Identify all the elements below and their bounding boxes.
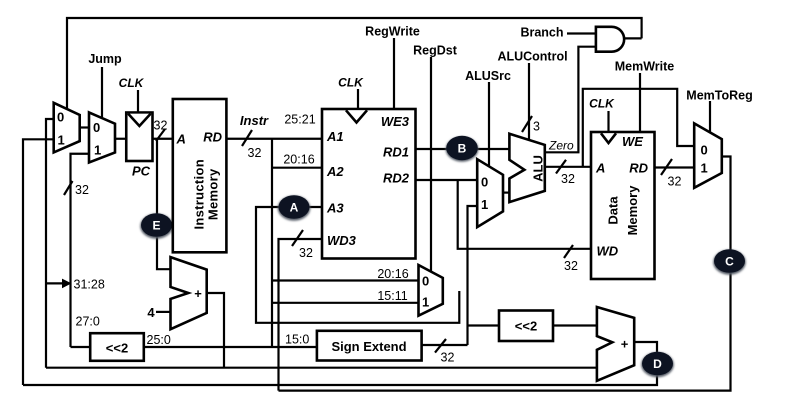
svg-text:E: E xyxy=(152,219,160,233)
wire RD2 to srcB mux input 0 xyxy=(416,179,478,181)
wire RD1 to ALU xyxy=(416,148,510,150)
svg-text:RegDst: RegDst xyxy=(413,44,458,58)
svg-text:WD3: WD3 xyxy=(327,233,357,248)
svg-text:+: + xyxy=(194,286,202,301)
svg-text:15:11: 15:11 xyxy=(377,289,407,303)
svg-text:32: 32 xyxy=(441,351,455,365)
wire Jump select xyxy=(101,67,103,119)
svg-text:Branch: Branch xyxy=(520,26,563,40)
arrowhead 31:28 xyxy=(62,279,72,289)
register file xyxy=(322,109,416,259)
svg-text:25:0: 25:0 xyxy=(147,333,171,347)
node E xyxy=(140,213,173,239)
register PC xyxy=(126,113,152,162)
node B xyxy=(446,136,479,162)
wire ALUSrc xyxy=(488,82,490,166)
svg-text:32: 32 xyxy=(248,146,262,160)
svg-text:MemWrite: MemWrite xyxy=(615,60,675,74)
label ALU (rotated) xyxy=(531,155,546,182)
mux branch (PCSrc) xyxy=(54,103,80,153)
svg-text:ALUSrc: ALUSrc xyxy=(465,69,511,83)
svg-text:4: 4 xyxy=(147,305,155,320)
svg-text:A3: A3 xyxy=(326,201,344,216)
wire 20:16 to A2 xyxy=(272,167,322,169)
svg-text:RegWrite: RegWrite xyxy=(365,25,420,39)
svg-text:1: 1 xyxy=(94,143,101,158)
svg-text:RD1: RD1 xyxy=(383,145,409,160)
svg-text:B: B xyxy=(458,142,467,156)
wire AND output stub xyxy=(624,37,642,39)
svg-text:1: 1 xyxy=(422,295,429,310)
svg-text:25:21: 25:21 xyxy=(284,113,315,127)
wire SignImm up to srcB mux input 1 xyxy=(468,206,478,345)
wire PC to instruction memory A xyxy=(153,138,174,140)
node C xyxy=(713,249,746,275)
svg-text:ALU: ALU xyxy=(531,155,546,182)
svg-text:32: 32 xyxy=(564,259,578,273)
clock triangle data memory xyxy=(601,133,616,143)
svg-text:A2: A2 xyxy=(326,164,344,179)
svg-text:D: D xyxy=(653,357,662,371)
svg-text:0: 0 xyxy=(701,143,708,158)
svg-text:<<2: <<2 xyxy=(515,319,537,334)
svg-text:+: + xyxy=(621,337,629,352)
svg-text:C: C xyxy=(725,255,734,269)
svg-text:ALUControl: ALUControl xyxy=(497,50,567,64)
slash WD3 32 xyxy=(292,230,303,246)
mux RegDst xyxy=(419,265,443,316)
wire result from MemToReg mux down and along bottom xyxy=(279,157,731,391)
box shift left 2 (jump) xyxy=(90,333,144,361)
svg-text:RD: RD xyxy=(629,161,648,176)
wire PC tap down to PC+4 adder xyxy=(157,139,171,269)
wire instr bits vertical xyxy=(271,139,273,347)
svg-text:1: 1 xyxy=(701,161,708,176)
wire RegDst xyxy=(430,57,432,272)
wire jump address to jump mux input 1 xyxy=(71,154,90,347)
svg-text:Memory: Memory xyxy=(625,185,640,236)
svg-text:Sign Extend: Sign Extend xyxy=(331,339,406,354)
label Data Memory (rotated) xyxy=(606,185,641,236)
wire Branch into AND gate xyxy=(567,32,596,34)
svg-text:31:28: 31:28 xyxy=(74,278,105,292)
svg-text:A: A xyxy=(595,161,605,176)
svg-text:A1: A1 xyxy=(326,129,344,144)
clock triangle PC xyxy=(128,114,150,126)
svg-text:32: 32 xyxy=(299,246,313,260)
svg-text:32: 32 xyxy=(75,183,89,197)
wire RegWrite xyxy=(393,38,395,109)
slash SignImm 32 xyxy=(435,339,446,353)
slash ALU result 32 xyxy=(556,160,566,174)
svg-text:Zero: Zero xyxy=(548,139,574,153)
mux MemToReg xyxy=(694,123,722,187)
wire PC+4 bus to branch adder xyxy=(46,367,597,369)
alu ALU xyxy=(509,134,544,202)
wire PC+4 to branch mux input 0 xyxy=(46,119,54,368)
svg-text:WD: WD xyxy=(597,244,619,259)
svg-text:3: 3 xyxy=(533,120,540,134)
svg-text:15:0: 15:0 xyxy=(285,333,309,347)
wire A3 write-address feedback xyxy=(256,207,459,323)
svg-text:A: A xyxy=(290,201,299,215)
wire constant 4 into adder xyxy=(156,311,170,313)
wire branch target to branch mux input 1 xyxy=(23,139,54,385)
wire data memory RD to MemToReg mux input 1 xyxy=(655,166,695,168)
wire instr 25:0 / 15:0 horizontal xyxy=(144,346,317,348)
svg-text:WE3: WE3 xyxy=(381,114,410,129)
wire CLK to data memory xyxy=(607,111,609,132)
svg-text:32: 32 xyxy=(154,119,168,133)
svg-text:1: 1 xyxy=(58,133,65,148)
slash ALUControl 3 xyxy=(522,116,532,132)
wire branch mux to jump mux xyxy=(80,126,89,128)
wire <<2 output to jump vertical xyxy=(71,346,91,348)
node D xyxy=(641,352,674,378)
svg-text:Instruction: Instruction xyxy=(191,159,206,229)
svg-text:<<2: <<2 xyxy=(106,341,128,356)
slash jump address 32 xyxy=(64,181,73,195)
svg-text:0: 0 xyxy=(57,110,64,125)
svg-text:RD2: RD2 xyxy=(383,171,410,186)
svg-text:20:16: 20:16 xyxy=(283,153,314,167)
wire <<2 to branch adder xyxy=(553,324,597,326)
wire ALUControl xyxy=(528,63,530,140)
wire CLK to PC xyxy=(137,90,139,113)
svg-text:PC: PC xyxy=(132,164,151,179)
wire PC+4 adder output down xyxy=(207,293,224,368)
wire PCSrc top feedback (AND output to branch mux select) xyxy=(67,18,642,110)
svg-text:32: 32 xyxy=(668,175,682,189)
wire SignImm branch to shift left 2 xyxy=(468,324,500,326)
label Instruction Memory (rotated) xyxy=(191,159,220,229)
svg-text:CLK: CLK xyxy=(119,76,145,90)
svg-text:0: 0 xyxy=(422,274,429,289)
wire Instr to register file A1 xyxy=(226,138,322,140)
svg-text:CLK: CLK xyxy=(338,76,364,90)
svg-text:Memory: Memory xyxy=(206,168,221,220)
mux srcB (ALUSrc) xyxy=(477,159,503,227)
wire jump mux to PC xyxy=(115,138,126,140)
wire 15:11 to RegDst mux input 1 xyxy=(272,302,419,304)
wire Zero from ALU to AND gate xyxy=(545,47,596,153)
mux jump xyxy=(89,112,115,162)
clock triangle register file xyxy=(346,110,367,122)
slash PC out 32 xyxy=(156,129,165,141)
wire branch adder output to branch bus xyxy=(23,342,657,385)
svg-text:0: 0 xyxy=(93,120,100,135)
svg-text:WE: WE xyxy=(622,134,643,149)
svg-text:RD: RD xyxy=(203,130,222,145)
wire CLK to register file xyxy=(357,89,359,109)
node A xyxy=(278,195,311,221)
adder branch target xyxy=(597,307,634,381)
svg-text:32: 32 xyxy=(561,172,575,186)
box Sign Extend xyxy=(317,331,422,361)
memory instruction xyxy=(173,99,227,252)
wire Sign Extend output xyxy=(422,344,468,346)
slash Instr 32 xyxy=(242,130,252,146)
wire ALU result bypass around data memory xyxy=(583,89,694,167)
svg-text:1: 1 xyxy=(481,197,488,212)
svg-text:MemToReg: MemToReg xyxy=(686,89,752,103)
wire 20:16 to RegDst mux input 0 xyxy=(272,279,419,281)
slash DM RD 32 xyxy=(661,159,672,175)
box shift left 2 (branch) xyxy=(499,311,553,342)
slash WD 32 xyxy=(564,245,573,258)
wire MemToReg select xyxy=(709,101,711,133)
svg-text:A: A xyxy=(176,132,186,147)
svg-text:27:0: 27:0 xyxy=(76,315,100,329)
svg-text:20:16: 20:16 xyxy=(377,267,408,281)
svg-text:Data: Data xyxy=(606,196,621,225)
svg-text:0: 0 xyxy=(481,175,488,190)
AND gate (Branch AND Zero) xyxy=(596,27,624,52)
wire ALU result to data memory A xyxy=(545,166,591,168)
adder PC+4 xyxy=(171,257,207,329)
svg-text:CLK: CLK xyxy=(589,97,615,111)
svg-text:Jump: Jump xyxy=(88,52,122,66)
memory data xyxy=(591,132,655,279)
wire store data to data memory WD xyxy=(458,180,591,249)
wire srcB mux to ALU xyxy=(503,192,509,194)
wire 31:28 arrow xyxy=(46,282,64,284)
wire MemWrite xyxy=(639,73,641,132)
wire WD3 feedback from result bus xyxy=(279,239,323,391)
svg-text:Instr: Instr xyxy=(240,113,269,128)
